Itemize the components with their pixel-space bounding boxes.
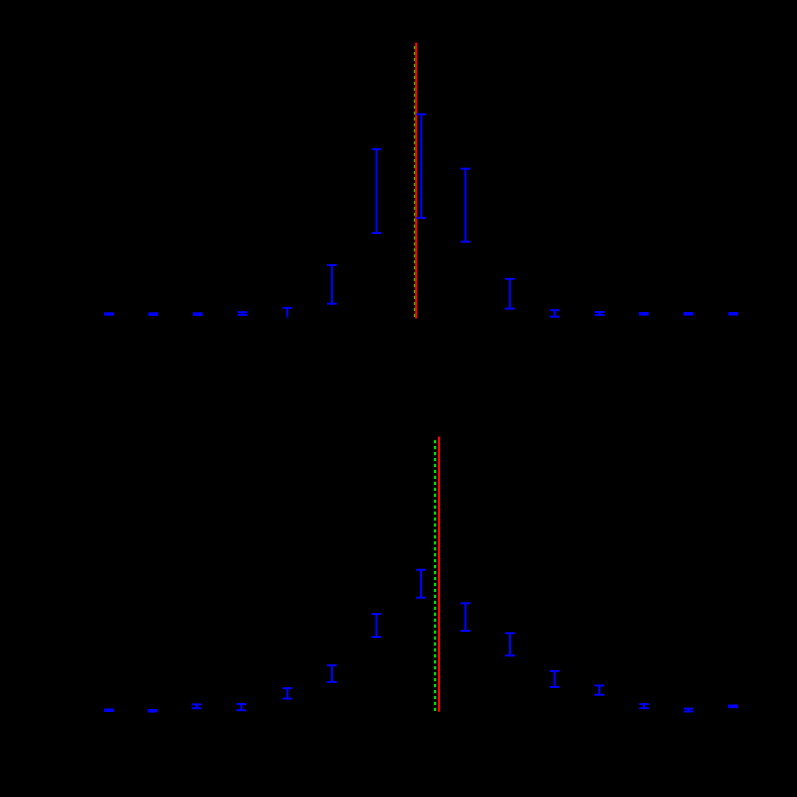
top errorbar 4 [238, 312, 248, 315]
bottom errorbar 5 [283, 688, 293, 698]
bottom errorbar 2 [148, 710, 158, 712]
bottom errorbar 10 [505, 633, 515, 655]
top errorbar 10 [505, 279, 515, 309]
top errorbar 2 [148, 313, 158, 315]
bottom errorbar 11 [550, 671, 560, 687]
bottom plot error bars (blue) [104, 570, 738, 712]
top plot: signal-region fit line (green dashed) [414, 46, 416, 318]
top errorbar 1 [104, 313, 114, 314]
bottom errorbar 15 [728, 706, 738, 708]
bottom errorbar 6 [327, 665, 337, 682]
bottom errorbar 3 [192, 704, 202, 708]
top errorbar 8 [416, 114, 426, 218]
bottom errorbar 14 [684, 709, 694, 712]
bottom plot: total fit line (red solid) [438, 437, 440, 712]
bottom errorbar 1 [104, 710, 114, 712]
bottom errorbar 7 [372, 614, 382, 637]
top plot error bars (blue) [104, 114, 738, 318]
top errorbar 11 [550, 310, 560, 317]
top errorbar 5 (lower end clipped at axis) [282, 308, 292, 319]
bottom errorbar 4 [236, 704, 246, 710]
bottom errorbar 13 [639, 704, 649, 708]
top errorbar 9 [461, 169, 471, 242]
bottom errorbar 12 [594, 686, 604, 695]
top errorbar 15 [728, 313, 738, 315]
top errorbar 7 [372, 149, 382, 233]
bottom plot: background-only line (green dashed) [434, 440, 436, 711]
top errorbar 12 [595, 312, 605, 315]
top errorbar 13 [639, 313, 649, 315]
top errorbar 3 [193, 313, 203, 315]
bottom errorbar 8 [416, 570, 426, 598]
top errorbar 6 [327, 265, 337, 304]
top errorbar 14 [684, 313, 694, 315]
bottom errorbar 9 [461, 603, 471, 631]
top plot: total fit line (red solid) [415, 43, 417, 319]
